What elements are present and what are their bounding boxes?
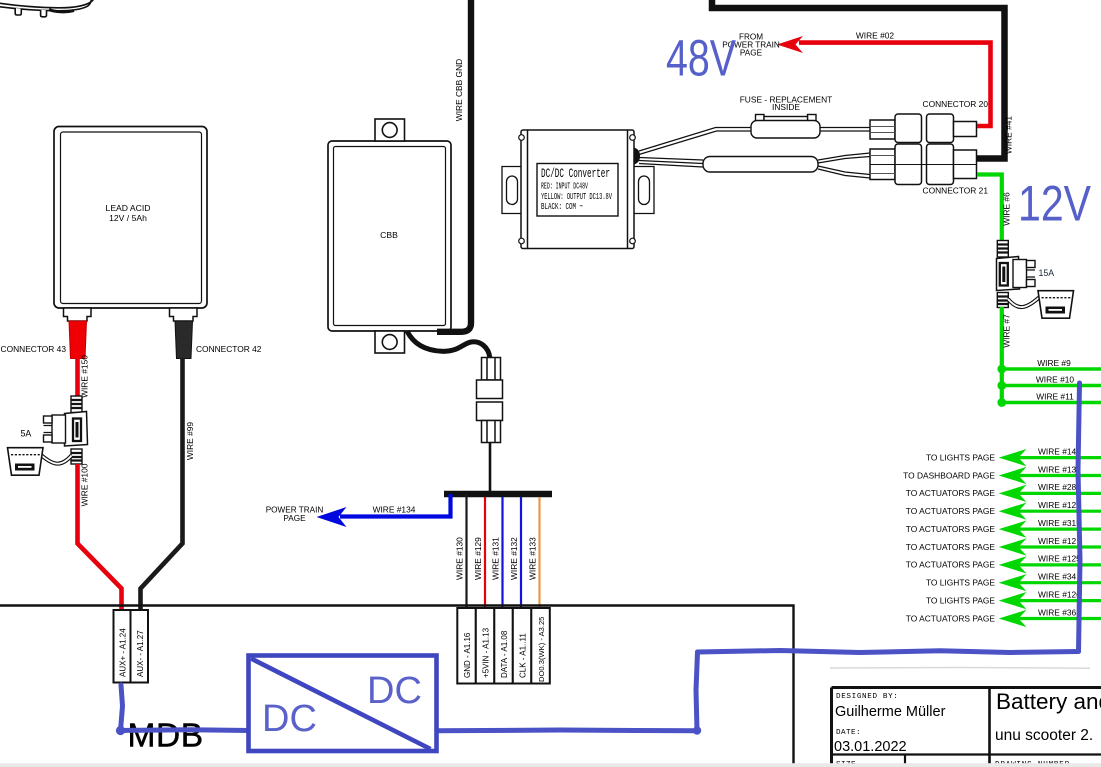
MDB pin AUX- - A1.27	[131, 610, 149, 683]
svg-text:BLACK: COM −: BLACK: COM −	[541, 201, 583, 212]
fuse F-5A top crimp	[71, 396, 82, 413]
MDB pin CLK - A1..11	[513, 608, 532, 684]
svg-text:PAGE: PAGE	[740, 49, 763, 58]
arrow to power train page (blue)	[317, 507, 347, 527]
CBB box	[328, 141, 451, 331]
svg-text:WIRE #41: WIRE #41	[1004, 116, 1014, 155]
fuse F-5A cap strap	[41, 455, 72, 464]
DC/DC converter symbol (blue box)	[249, 656, 437, 752]
CBB bottom mounting tab	[375, 331, 405, 353]
svg-text:unu scooter 2.: unu scooter 2.	[995, 727, 1093, 744]
battery LEAD ACID 12V/5Ah	[54, 127, 207, 309]
wire #134 blue to power train page	[340, 494, 451, 517]
svg-text:03.01.2022: 03.01.2022	[834, 739, 907, 755]
wires sleeve to connector 21	[818, 153, 870, 178]
wire #6 green from connector 21 to 15A fuse	[977, 175, 1002, 242]
svg-text:TO ACTUATORS PAGE: TO ACTUATORS PAGE	[906, 506, 996, 516]
svg-text:WIRE #128: WIRE #128	[1038, 500, 1081, 510]
MDB pin AUX+ - A1.24	[114, 610, 131, 683]
fuse F-5A dust cap	[8, 448, 44, 476]
DC/DC converter U1 left mounting bracket	[502, 167, 521, 214]
svg-text:DC: DC	[367, 670, 422, 712]
DC/DC converter U1 right mounting bracket	[634, 167, 654, 214]
svg-text:TO ACTUATORS PAGE: TO ACTUATORS PAGE	[906, 542, 996, 552]
node blue junction at MDB	[116, 726, 125, 735]
fuse holder FUSE - REPLACEMENT INSIDE	[751, 115, 820, 139]
wire #9 branch	[1002, 367, 1101, 370]
connector 42 black boot	[175, 321, 193, 359]
svg-text:AUX- - A1.27: AUX- - A1.27	[136, 630, 145, 677]
svg-text:WIRE #12: WIRE #12	[1038, 536, 1077, 546]
wire #34 to lights page	[926, 572, 1101, 592]
fuse F-5A bottom crimp	[71, 449, 82, 464]
wire #128 to actuators page	[906, 500, 1101, 520]
svg-text:MDB: MDB	[128, 718, 204, 755]
svg-text:TO LIGHTS PAGE: TO LIGHTS PAGE	[926, 578, 995, 588]
svg-text:TO ACTUATORS PAGE: TO ACTUATORS PAGE	[906, 560, 996, 570]
svg-text:INSIDE: INSIDE	[772, 102, 800, 112]
svg-text:DC: DC	[262, 698, 317, 740]
svg-text:WIRE #7: WIRE #7	[1002, 314, 1012, 348]
svg-text:CLK - A1..11: CLK - A1..11	[519, 633, 528, 678]
blue annotation wire: AUX+ drop	[121, 685, 123, 731]
connector 43 red boot	[69, 321, 87, 359]
blue annotation wire: riser up	[696, 652, 698, 731]
DC/DC wire grommet	[634, 148, 640, 165]
blue annotation wire: DC/DC symbol to riser	[436, 728, 697, 734]
svg-text:TO DASHBOARD PAGE: TO DASHBOARD PAGE	[903, 470, 995, 480]
svg-text:CONNECTOR 43: CONNECTOR 43	[1, 344, 67, 354]
wire #133 (orange)	[538, 497, 540, 608]
wire #132 (blue)	[520, 497, 522, 608]
DC/DC symbol diagonal	[251, 659, 431, 750]
wire #125 to actuators page	[906, 554, 1101, 574]
svg-text:Guilherme Müller: Guilherme Müller	[835, 704, 946, 720]
svg-text:CONNECTOR 20: CONNECTOR 20	[923, 99, 989, 109]
wire #28 to actuators page	[906, 482, 1101, 502]
fuse F-15A body	[997, 257, 1020, 291]
fuse F-5A body	[65, 412, 88, 447]
arrow from power train page (red)	[777, 36, 803, 53]
MDB pin DATA - A1.08	[494, 608, 513, 684]
svg-text:DESIGNED BY:: DESIGNED BY:	[836, 693, 898, 701]
wire #99 black battery- to MDB AUX-	[141, 358, 183, 610]
node wire #11 junction	[997, 398, 1006, 407]
battery - terminal post	[170, 308, 198, 321]
svg-text:AUX+ - A1.24: AUX+ - A1.24	[119, 628, 128, 677]
svg-text:WIRE CBB GND: WIRE CBB GND	[454, 59, 464, 121]
CBB cable connector pair	[477, 358, 503, 443]
svg-text:WIRE #131: WIRE #131	[491, 537, 501, 580]
svg-text:GND - A1.16: GND - A1.16	[463, 632, 472, 678]
svg-text:WIRE #28: WIRE #28	[1038, 482, 1077, 492]
wire #129 (red)	[484, 497, 486, 608]
node blue bend	[693, 726, 701, 734]
connector 21	[870, 144, 977, 185]
svg-text:WIRE #315: WIRE #315	[1038, 518, 1081, 528]
svg-text:WIRE #02: WIRE #02	[856, 31, 895, 41]
scooter body outline (cropped, top-left)	[0, 0, 94, 12]
svg-text:WIRE #99: WIRE #99	[185, 422, 195, 461]
fuse F-5A blade fuse	[44, 415, 66, 443]
scooter mount tab 1	[15, 8, 21, 15]
wire #02 red from power train page to connector 20	[799, 43, 991, 126]
wire #7 green from fuse down to junctions	[1000, 307, 1004, 403]
svg-text:WIRE #132: WIRE #132	[509, 537, 519, 580]
fuse F-15A dust cap	[1038, 291, 1074, 319]
svg-text:12V / 5Ah: 12V / 5Ah	[109, 213, 147, 223]
wire #135 to dashboard page	[903, 464, 1101, 484]
svg-text:DC/DC Converter: DC/DC Converter	[541, 166, 610, 181]
fuse F-15A blade fuse	[1013, 260, 1035, 288]
wire #140 to lights page	[926, 446, 1101, 466]
svg-text:48V: 48V	[666, 30, 736, 87]
svg-text:WIRE #129: WIRE #129	[473, 537, 483, 580]
svg-text:WIRE #134: WIRE #134	[373, 505, 416, 515]
svg-text:WIRE #9: WIRE #9	[1037, 358, 1071, 368]
battery + terminal post	[64, 308, 92, 321]
svg-text:15A: 15A	[1039, 268, 1055, 278]
connector 20	[870, 114, 977, 143]
wire #150 red battery+ to 5A fuse	[75, 358, 80, 397]
svg-text:TO ACTUATORS PAGE: TO ACTUATORS PAGE	[906, 524, 996, 534]
DC/DC converter U1 body	[521, 130, 634, 249]
fuse F-15A bottom crimp	[997, 293, 1008, 308]
fuse F-15A cap strap	[1008, 298, 1039, 308]
CBB top mounting tab	[375, 119, 405, 141]
node wire #9 junction	[997, 365, 1006, 374]
wire #11 branch	[1002, 401, 1101, 404]
svg-text:WIRE #36: WIRE #36	[1038, 607, 1077, 617]
wire #12 to actuators page	[906, 536, 1101, 556]
MDB pin DO0.3(WK) - A3.25	[531, 608, 550, 684]
svg-text:CONNECTOR 21: CONNECTOR 21	[923, 186, 989, 196]
svg-text:TO LIGHTS PAGE: TO LIGHTS PAGE	[926, 595, 995, 605]
svg-text:WIRE #10: WIRE #10	[1036, 375, 1075, 385]
wire DC/DC to fuse (48V input pair)	[639, 128, 751, 155]
wire #315 to actuators page	[906, 518, 1101, 538]
svg-text:DO0.3(WK) - A3.25: DO0.3(WK) - A3.25	[537, 617, 546, 682]
blue annotation wire: right riser up to wire #10	[1078, 383, 1080, 652]
svg-text:WIRE #133: WIRE #133	[528, 537, 538, 580]
wire DC/DC to sleeve	[639, 158, 703, 168]
wire #126 to lights page	[926, 589, 1101, 609]
svg-text:WIRE #130: WIRE #130	[455, 537, 465, 580]
wire #10 branch	[1002, 384, 1101, 387]
MDB pin +5VIN - A1.13	[476, 608, 495, 684]
DC/DC label plate	[537, 164, 618, 217]
svg-text:WIRE #135: WIRE #135	[1038, 464, 1081, 474]
svg-text:WIRE #126: WIRE #126	[1038, 589, 1081, 599]
wire CBB GND (thick black, from top edge down to CBB)	[437, 0, 471, 332]
DC/DC label text	[541, 166, 612, 212]
svg-text:TO LIGHTS PAGE: TO LIGHTS PAGE	[926, 452, 995, 462]
wire #100 red from 5A fuse to MDB AUX+	[78, 464, 122, 610]
blue annotation wire: MDB to DC/DC symbol	[121, 727, 251, 733]
svg-text:WIRE #100: WIRE #100	[80, 463, 90, 506]
wire #41 thick black from top edge to connector 21	[712, 0, 1005, 159]
svg-text:12V: 12V	[1018, 176, 1092, 232]
svg-text:5A: 5A	[21, 429, 32, 439]
wire from connector to junction bar	[489, 443, 492, 492]
svg-text:+5VIN - A1.13: +5VIN - A1.13	[482, 627, 491, 678]
svg-text:CBB: CBB	[380, 230, 398, 240]
title block frame	[832, 688, 1101, 767]
svg-text:WIRE #150: WIRE #150	[80, 355, 90, 398]
svg-text:CONNECTOR 42: CONNECTOR 42	[196, 344, 262, 354]
faint guide line	[830, 667, 1090, 670]
svg-text:PAGE: PAGE	[283, 514, 306, 523]
svg-text:Battery and: Battery and	[996, 689, 1101, 714]
svg-text:WIRE #125: WIRE #125	[1038, 554, 1081, 564]
wire #131 (blue)	[501, 497, 503, 608]
svg-text:LEAD ACID: LEAD ACID	[106, 203, 151, 213]
CBB output cable (curved)	[407, 331, 490, 358]
node wire #10 junction	[997, 381, 1006, 390]
wire #36 to actuators page	[906, 607, 1101, 627]
svg-text:WIRE #140: WIRE #140	[1038, 446, 1081, 456]
svg-text:DATE:: DATE:	[836, 729, 861, 737]
svg-text:WIRE #6: WIRE #6	[1002, 192, 1012, 226]
cable sleeve	[703, 157, 818, 173]
svg-text:TO ACTUATORS PAGE: TO ACTUATORS PAGE	[906, 613, 996, 623]
junction bar	[444, 491, 552, 498]
svg-text:WIRE #34: WIRE #34	[1038, 572, 1077, 582]
bottom window strip	[0, 763, 1101, 767]
MDB pin GND - A1.16	[457, 608, 476, 684]
svg-text:WIRE #11: WIRE #11	[1036, 392, 1074, 402]
fuse F-15A top crimp	[997, 241, 1008, 258]
svg-text:DATA - A1.08: DATA - A1.08	[500, 630, 509, 678]
wire #130 (black)	[465, 494, 467, 608]
scooter mount tab 2	[41, 10, 47, 17]
wire fuse to connector 20	[820, 128, 870, 132]
blue annotation wire: horizontal to right	[698, 651, 1079, 653]
DC/DC corner screws	[519, 135, 636, 244]
svg-text:TO ACTUATORS PAGE: TO ACTUATORS PAGE	[906, 488, 996, 498]
MDB box outline	[0, 606, 794, 767]
